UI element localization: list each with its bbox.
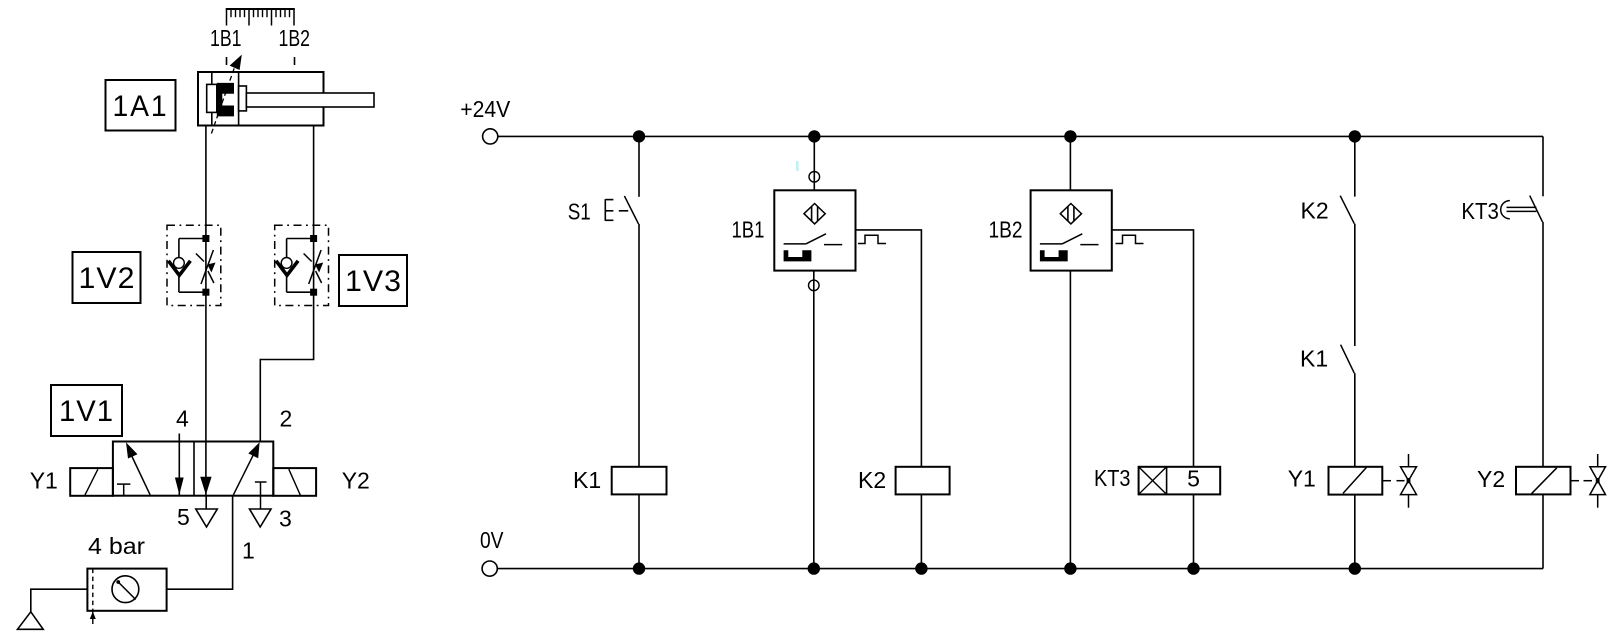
svg-text:3: 3 [279, 506, 292, 532]
pulse edge symbol at 1B2 [1116, 235, 1144, 243]
junction node top rail 1 [633, 130, 645, 142]
cylinder 1A1 body with magnetic piston and rod [198, 72, 374, 126]
svg-text:KT3: KT3 [1461, 198, 1499, 224]
connection circle below 1B1 [809, 280, 820, 291]
junction node top rail 2 [808, 130, 820, 142]
wire K2 contact to K1 contact [1354, 224, 1356, 346]
pressure source unit (4 bar) [87, 569, 166, 624]
proximity sensor 1B1 [774, 190, 855, 270]
valve 1V1 right position paths (1-2, 4-5, 3 blocked) [200, 442, 266, 510]
svg-text:K2: K2 [858, 467, 886, 493]
svg-text:0V: 0V [480, 527, 504, 553]
wire rail to K2 contact [1354, 136, 1356, 196]
svg-text:K1: K1 [573, 467, 601, 493]
svg-text:K2: K2 [1301, 197, 1329, 223]
junction node bottom rail 1 [633, 562, 645, 574]
wire rail to 1B1 [813, 136, 815, 190]
terminal 0V [482, 561, 497, 576]
wire 1B2 output to KT3 branch [1112, 230, 1194, 467]
svg-text:4: 4 [176, 406, 189, 432]
svg-text:4 bar: 4 bar [88, 533, 145, 559]
svg-text:Y1: Y1 [30, 468, 58, 494]
flow control valve 1V3 [275, 225, 329, 305]
wire K1 contact to Y1 [1354, 373, 1356, 467]
cyan selection artifact [796, 161, 799, 171]
sensor mark 1B1 [226, 57, 228, 65]
port 4 stub [178, 434, 180, 442]
compressed air supply triangle [18, 612, 44, 630]
tube: cylinder right port to valve port 2 (through 1V3) [260, 126, 313, 442]
valve cross-reference symbol at Y1 [1382, 454, 1416, 508]
timer relay coil KT3 (delay 5) [1139, 467, 1221, 495]
label box 1A1 [106, 80, 176, 131]
proximity sensor 1B2 [1031, 190, 1112, 270]
tube: cylinder left port to valve port 4 (through 1V2) [205, 126, 207, 442]
pulse edge symbol at 1B1 [858, 235, 886, 243]
valve cross-reference symbol at Y2 [1571, 454, 1606, 508]
connection circle above 1B1 [809, 172, 820, 183]
svg-text:1V3: 1V3 [345, 265, 402, 298]
flow control valve 1V2 [167, 225, 221, 305]
junction node bottom rail 5 [1187, 562, 1199, 574]
svg-text:Y2: Y2 [1477, 466, 1505, 492]
exhaust silencer port 5 [196, 509, 218, 527]
wire Y1 to rail [1354, 495, 1356, 569]
junction node top rail 4 [1349, 130, 1361, 142]
contact K2 (NO) [1340, 196, 1354, 224]
solenoid coil Y2 [1516, 467, 1571, 495]
svg-text:1V1: 1V1 [59, 395, 114, 428]
svg-text:1B2: 1B2 [279, 25, 311, 51]
wire K1 to rail [638, 494, 640, 568]
wire rail to S1 [638, 136, 640, 196]
relay coil K2 [896, 467, 950, 495]
wire KT3 contact to Y2 [1542, 222, 1544, 467]
label box 1V1 [51, 385, 122, 436]
junction node bottom rail 4 [1064, 562, 1076, 574]
relay coil K1 [612, 467, 667, 495]
junction node bottom rail 2 [808, 562, 820, 574]
svg-text:1A1: 1A1 [113, 90, 169, 123]
svg-text:5: 5 [177, 504, 190, 530]
svg-text:2: 2 [280, 406, 293, 432]
wire rail to 1B2 [1069, 136, 1071, 190]
pushbutton S1 (NO contact) [605, 196, 638, 224]
svg-text:1B2: 1B2 [989, 217, 1023, 243]
svg-text:Y1: Y1 [1288, 466, 1316, 492]
label box 1V3 [339, 255, 407, 306]
svg-text:5: 5 [1187, 466, 1200, 492]
wire rail corner to KT3 contact [1542, 136, 1544, 196]
exhaust silencer port 3 [250, 509, 272, 527]
0V rail [497, 568, 1543, 570]
junction node bottom rail 3 [915, 562, 927, 574]
svg-text:Y2: Y2 [342, 468, 370, 494]
svg-text:KT3: KT3 [1094, 465, 1131, 491]
wire Y2 to rail corner [1542, 494, 1544, 568]
piston position arrow [211, 55, 241, 134]
wire 1B1 output to K2 branch [856, 230, 922, 467]
wire S1 to K1 [638, 224, 640, 467]
port 1 tube [167, 496, 233, 590]
wire K2 to rail [920, 494, 922, 568]
+24V rail [498, 135, 1543, 137]
svg-text:1: 1 [242, 538, 255, 564]
wire 1B2 to rail [1069, 271, 1071, 569]
svg-text:1V2: 1V2 [79, 262, 136, 295]
supply pipe [31, 589, 88, 612]
valve 1V1 body (5/2 way) [113, 442, 273, 496]
measuring scale (ruler) above cylinder [226, 9, 295, 26]
wire KT3 to rail [1193, 494, 1195, 568]
svg-text:1B1: 1B1 [732, 217, 765, 243]
terminal +24V [483, 129, 498, 144]
svg-text:K1: K1 [1300, 346, 1328, 372]
svg-text:S1: S1 [568, 199, 591, 225]
off-delay timer contact KT3 [1501, 196, 1543, 222]
solenoid Y1 of valve 1V1 [70, 468, 113, 496]
label box 1V2 [73, 252, 141, 303]
contact K1 (NO) [1341, 345, 1355, 374]
junction node top rail 3 [1064, 130, 1076, 142]
svg-text:1B1: 1B1 [210, 25, 242, 51]
svg-text:+24V: +24V [460, 96, 511, 122]
solenoid Y2 of valve 1V1 [273, 468, 316, 496]
valve 1V1 left position paths (1-4, 2-3, 5 blocked) [117, 442, 184, 495]
sensor mark 1B2 [294, 57, 296, 65]
solenoid coil Y1 [1329, 467, 1383, 495]
junction node bottom rail 6 [1349, 562, 1361, 574]
wire 1B1 to rail [813, 271, 815, 569]
